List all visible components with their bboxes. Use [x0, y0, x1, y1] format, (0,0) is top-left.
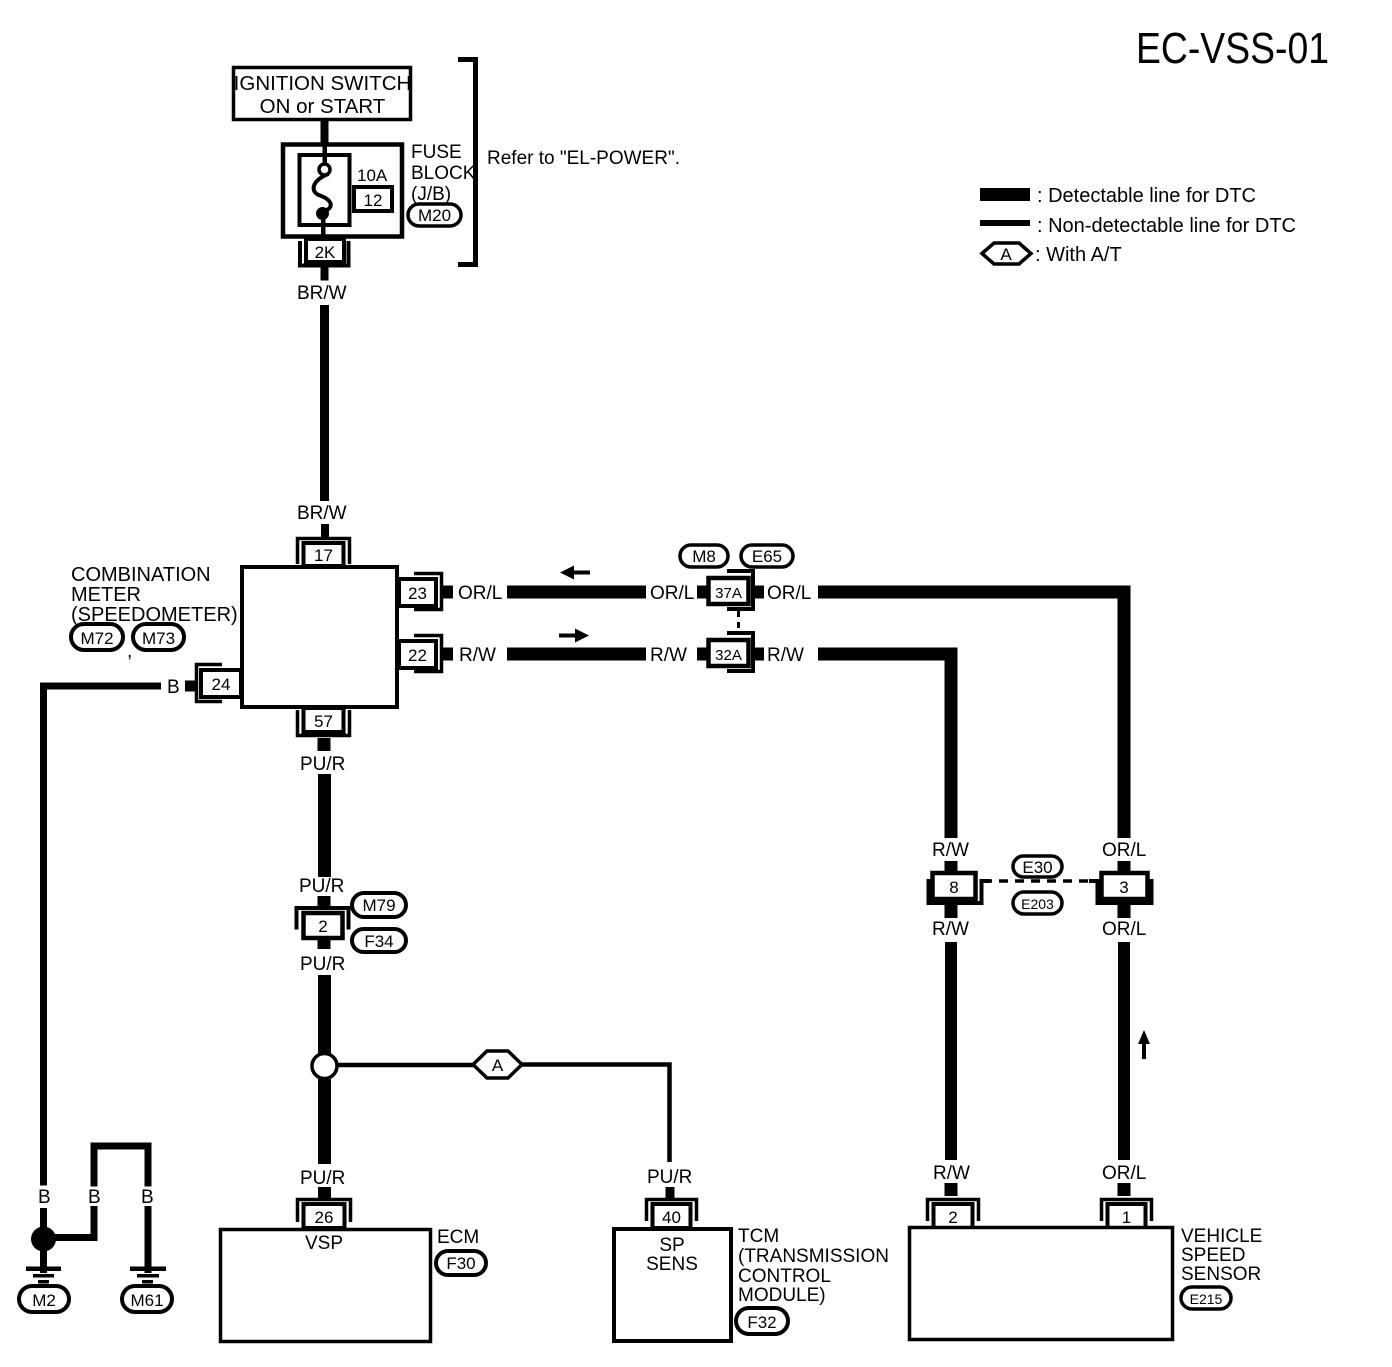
svg-text:F30: F30 [446, 1254, 475, 1273]
connector 17 bracket [298, 539, 350, 565]
ground symbol M61 [130, 1267, 166, 1272]
wire R/W segment 2 to right then down [818, 654, 951, 838]
connector 26 bracket [298, 1200, 351, 1223]
connector oval M8 [680, 545, 728, 567]
wire stub above connector 8 [945, 861, 958, 872]
wire PU/R vertical segment 3 [318, 1079, 331, 1164]
svg-text:A: A [492, 1056, 504, 1075]
fuse block M20 outer box [283, 145, 402, 237]
svg-text:M61: M61 [130, 1291, 163, 1310]
wire stub above connector 2 [945, 1183, 958, 1196]
svg-text:OR/L: OR/L [1102, 1163, 1146, 1184]
svg-text:SP: SP [659, 1235, 684, 1256]
connector oval F32 [736, 1308, 788, 1334]
svg-text:M8: M8 [692, 547, 716, 566]
box: IGNITION SWITCH ON or START [234, 68, 411, 120]
svg-text:37A: 37A [715, 585, 742, 602]
svg-text:BR/W: BR/W [297, 503, 347, 524]
connector 40 bracket [647, 1200, 697, 1222]
connector 23 box [399, 579, 436, 606]
connector oval F34 [352, 929, 406, 952]
wire stub above connector 3 [1118, 861, 1131, 872]
svg-text:12: 12 [364, 191, 383, 210]
wire middle leg lower [91, 1206, 98, 1241]
ECM box [221, 1230, 431, 1342]
inline connector 3 bracket [1098, 879, 1152, 903]
svg-text:OR/L: OR/L [767, 583, 811, 604]
connector oval M72 [71, 624, 123, 650]
svg-text:M79: M79 [362, 896, 395, 915]
svg-text:ON or START: ON or START [260, 95, 386, 118]
wire OR/L segment 1 (detectable) [507, 586, 646, 599]
inline connector 2 box [304, 913, 343, 938]
tick to dashed line from connector 8 [981, 879, 990, 883]
wire stub right of 37A [752, 586, 764, 599]
svg-text:E65: E65 [752, 547, 782, 566]
svg-text:SENS: SENS [646, 1254, 698, 1275]
dashed link 37A to 32A [737, 611, 740, 633]
TCM box [614, 1229, 731, 1341]
tick to dashed line from connector 3 [1089, 879, 1098, 883]
arrow up on OR/L [1138, 1030, 1150, 1059]
svg-text:PU/R: PU/R [647, 1167, 692, 1188]
wire A/T branch from junction [337, 1063, 473, 1068]
svg-text:2: 2 [948, 1208, 957, 1227]
svg-text:SPEED: SPEED [1181, 1245, 1245, 1266]
svg-text:PU/R: PU/R [300, 954, 345, 975]
legend non-detectable line sample [980, 220, 1030, 226]
wire stub left of 32A [697, 648, 708, 661]
svg-text:FUSE: FUSE [411, 142, 462, 163]
connector 17 box [304, 543, 344, 566]
connector 37A box [709, 578, 749, 604]
wire stub below inline connector 2 [318, 938, 331, 949]
wire stub above connector 17 [321, 524, 329, 538]
svg-text:PU/R: PU/R [300, 1168, 345, 1189]
wire stub right of 32A [752, 648, 764, 661]
connector 1 bracket (VSS) [1102, 1200, 1152, 1222]
connector 2K box [306, 239, 344, 262]
wire stub above connector 26 [318, 1187, 331, 1198]
junction node circle [312, 1054, 337, 1079]
wire fuse to 2K [321, 218, 326, 238]
svg-text:B: B [88, 1187, 101, 1208]
wire from dot to middle leg [50, 1234, 97, 1241]
svg-text:40: 40 [662, 1208, 681, 1227]
svg-text:B: B [167, 677, 180, 698]
svg-text:SENSOR: SENSOR [1181, 1264, 1261, 1285]
wire R/W vertical lower [945, 942, 957, 1160]
wire A/T branch to TCM [522, 1065, 670, 1163]
svg-text:R/W: R/W [459, 645, 496, 666]
svg-text:32A: 32A [715, 647, 742, 664]
wire stub below 2K [321, 268, 329, 281]
svg-text:(J/B): (J/B) [411, 184, 451, 205]
svg-text:: With A/T: : With A/T [1035, 244, 1122, 266]
svg-text:MODULE): MODULE) [738, 1285, 826, 1306]
svg-text:R/W: R/W [932, 840, 969, 861]
svg-text:OR/L: OR/L [458, 583, 502, 604]
legend A/T hexagon [982, 243, 1031, 264]
svg-text:VSP: VSP [305, 1233, 343, 1254]
connector oval E30 [1013, 856, 1062, 877]
svg-text:TCM: TCM [738, 1226, 779, 1247]
svg-text:OR/L: OR/L [650, 583, 694, 604]
svg-text:F34: F34 [364, 932, 393, 951]
svg-text:,: , [127, 641, 132, 662]
svg-text:10A: 10A [357, 166, 388, 185]
connector 22 bracket [414, 636, 442, 672]
svg-text:PU/R: PU/R [299, 876, 344, 897]
wire stub above connector 40 [666, 1187, 675, 1199]
inline connector 2 bracket [297, 908, 349, 930]
connector 37A bracket E65 half [727, 571, 753, 609]
connector oval M61 [122, 1286, 172, 1312]
inline connector 8 bracket [929, 879, 982, 903]
wire into fuse [323, 146, 328, 165]
connector 26 box [304, 1204, 345, 1228]
svg-text:57: 57 [314, 712, 333, 731]
svg-text:EC-VSS-01: EC-VSS-01 [1136, 24, 1329, 73]
wire right leg upper [145, 1143, 152, 1187]
ground symbol M2 [26, 1267, 61, 1272]
svg-text:B: B [38, 1187, 51, 1208]
fuse F12 inner box [300, 155, 350, 225]
svg-text:R/W: R/W [932, 919, 969, 940]
wire right leg lower to ground [145, 1206, 152, 1273]
wire stub B left to junction dot [40, 1208, 47, 1228]
wire PU/R vertical segment 1 [318, 774, 331, 877]
arrow left on OR/L [560, 566, 590, 580]
svg-text:Refer to "EL-POWER".: Refer to "EL-POWER". [487, 148, 680, 169]
connector oval M73 [133, 624, 184, 650]
svg-text:A: A [1000, 245, 1012, 264]
svg-text:2: 2 [318, 917, 327, 936]
wire stub below 57 [318, 738, 331, 751]
wire PU/R vertical segment 2 [318, 975, 331, 1053]
svg-text:VEHICLE: VEHICLE [1181, 1226, 1262, 1247]
hexagon A with A/T [473, 1051, 522, 1078]
connector oval E65 [741, 545, 793, 567]
connector 2 box (VSS) [934, 1204, 973, 1228]
wire OR/L segment 2 to right then down [818, 592, 1124, 838]
wire BR/W vertical [320, 305, 329, 501]
svg-text:17: 17 [314, 546, 333, 565]
connector 22 box [399, 641, 436, 668]
wire stub below connector 3 [1118, 905, 1131, 918]
svg-text:R/W: R/W [767, 645, 804, 666]
svg-text:24: 24 [212, 675, 231, 694]
connector oval M2 [19, 1286, 69, 1312]
wire R/W segment 1 (detectable) [507, 648, 646, 661]
wire stub left of 24 [185, 681, 196, 692]
ground junction dot [31, 1227, 56, 1252]
svg-text:R/W: R/W [933, 1163, 970, 1184]
svg-text:8: 8 [949, 878, 958, 897]
inline connector 3 box [1102, 873, 1148, 899]
wire stub above connector 1 [1118, 1183, 1131, 1196]
connector 24 bracket [197, 665, 223, 702]
svg-text:: Non-detectable line for DTC: : Non-detectable line for DTC [1037, 215, 1296, 237]
svg-text:M2: M2 [32, 1291, 56, 1310]
connector 2 bracket (VSS) [928, 1200, 979, 1222]
svg-text:(TRANSMISSION: (TRANSMISSION [738, 1246, 889, 1267]
bracket refer to EL-POWER [458, 60, 476, 265]
wire OR/L vertical lower [1118, 942, 1130, 1160]
combination meter box [242, 567, 397, 707]
svg-text:26: 26 [315, 1208, 334, 1227]
svg-text:OR/L: OR/L [1102, 840, 1146, 861]
wire middle leg upper [91, 1143, 98, 1187]
svg-text:BR/W: BR/W [297, 283, 347, 304]
connector 2K bracket [300, 241, 349, 266]
arrow right on R/W [559, 629, 589, 643]
wire stub above inline connector 2 [318, 896, 331, 907]
svg-text:: Detectable line for DTC: : Detectable line for DTC [1037, 185, 1256, 207]
wire B vertical long [40, 683, 47, 1186]
svg-text:IGNITION SWITCH: IGNITION SWITCH [234, 72, 412, 95]
wire stub below connector 8 [945, 905, 958, 918]
connector oval F30 [436, 1251, 486, 1275]
connector 40 box [653, 1204, 691, 1228]
svg-text:COMBINATION: COMBINATION [71, 564, 211, 586]
connector oval M20 [408, 204, 461, 226]
connector 1 box (VSS) [1108, 1204, 1146, 1228]
svg-text:R/W: R/W [650, 645, 687, 666]
svg-text:M20: M20 [418, 206, 451, 225]
svg-text:M73: M73 [142, 629, 175, 648]
connector 24 box [201, 670, 241, 697]
svg-text:E215: E215 [1190, 1291, 1223, 1307]
connector oval M79 [352, 893, 406, 917]
connector 23 bracket [414, 574, 442, 610]
svg-text:OR/L: OR/L [1102, 919, 1146, 940]
svg-text:1: 1 [1122, 1208, 1131, 1227]
wire stub right of 22 [442, 648, 453, 661]
svg-text:B: B [141, 1187, 154, 1208]
svg-text:E30: E30 [1022, 858, 1052, 877]
svg-text:M72: M72 [80, 629, 113, 648]
legend detectable line sample [980, 188, 1030, 201]
fuse number 12 box [354, 187, 392, 211]
wire stub left of 37A [697, 586, 708, 599]
wire ignition switch to fuse block (BR/W feed) [321, 119, 329, 145]
connector 57 bracket [298, 710, 350, 736]
connector 32A box [709, 640, 749, 666]
wire stub right of 23 [442, 586, 453, 599]
svg-text:PU/R: PU/R [300, 754, 345, 775]
svg-text:E203: E203 [1021, 896, 1054, 912]
wire B horizontal [40, 683, 161, 690]
wire dot to ground [40, 1251, 47, 1273]
connector 32A bracket E65 half [727, 633, 753, 671]
connector oval E215 [1181, 1287, 1231, 1309]
svg-text:BLOCK: BLOCK [411, 163, 476, 184]
svg-text:METER: METER [71, 584, 141, 606]
svg-text:ECM: ECM [437, 1227, 479, 1248]
svg-text:CONTROL: CONTROL [738, 1266, 831, 1287]
wire U top [91, 1143, 152, 1150]
svg-text:22: 22 [408, 646, 427, 665]
svg-text:23: 23 [408, 584, 427, 603]
svg-text:2K: 2K [315, 243, 336, 262]
inline connector 8 box [933, 873, 976, 899]
fuse element symbol [319, 164, 330, 175]
vehicle speed sensor box [910, 1228, 1173, 1340]
connector 57 box [304, 708, 344, 732]
svg-text:F32: F32 [747, 1313, 776, 1332]
dashed link E30/E203 [983, 879, 1097, 883]
connector oval E203 [1013, 892, 1062, 914]
svg-text:3: 3 [1119, 878, 1128, 897]
